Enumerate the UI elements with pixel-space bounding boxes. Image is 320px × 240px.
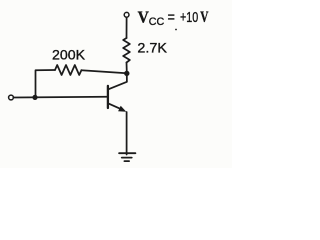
- svg-text:=: =: [168, 9, 176, 26]
- svg-text:+10: +10: [180, 9, 198, 26]
- svg-text:200K: 200K: [52, 47, 86, 63]
- svg-text:CC: CC: [149, 16, 165, 28]
- svg-text:V: V: [200, 9, 209, 26]
- svg-text:V: V: [138, 8, 149, 27]
- svg-text:2.7K: 2.7K: [137, 40, 167, 56]
